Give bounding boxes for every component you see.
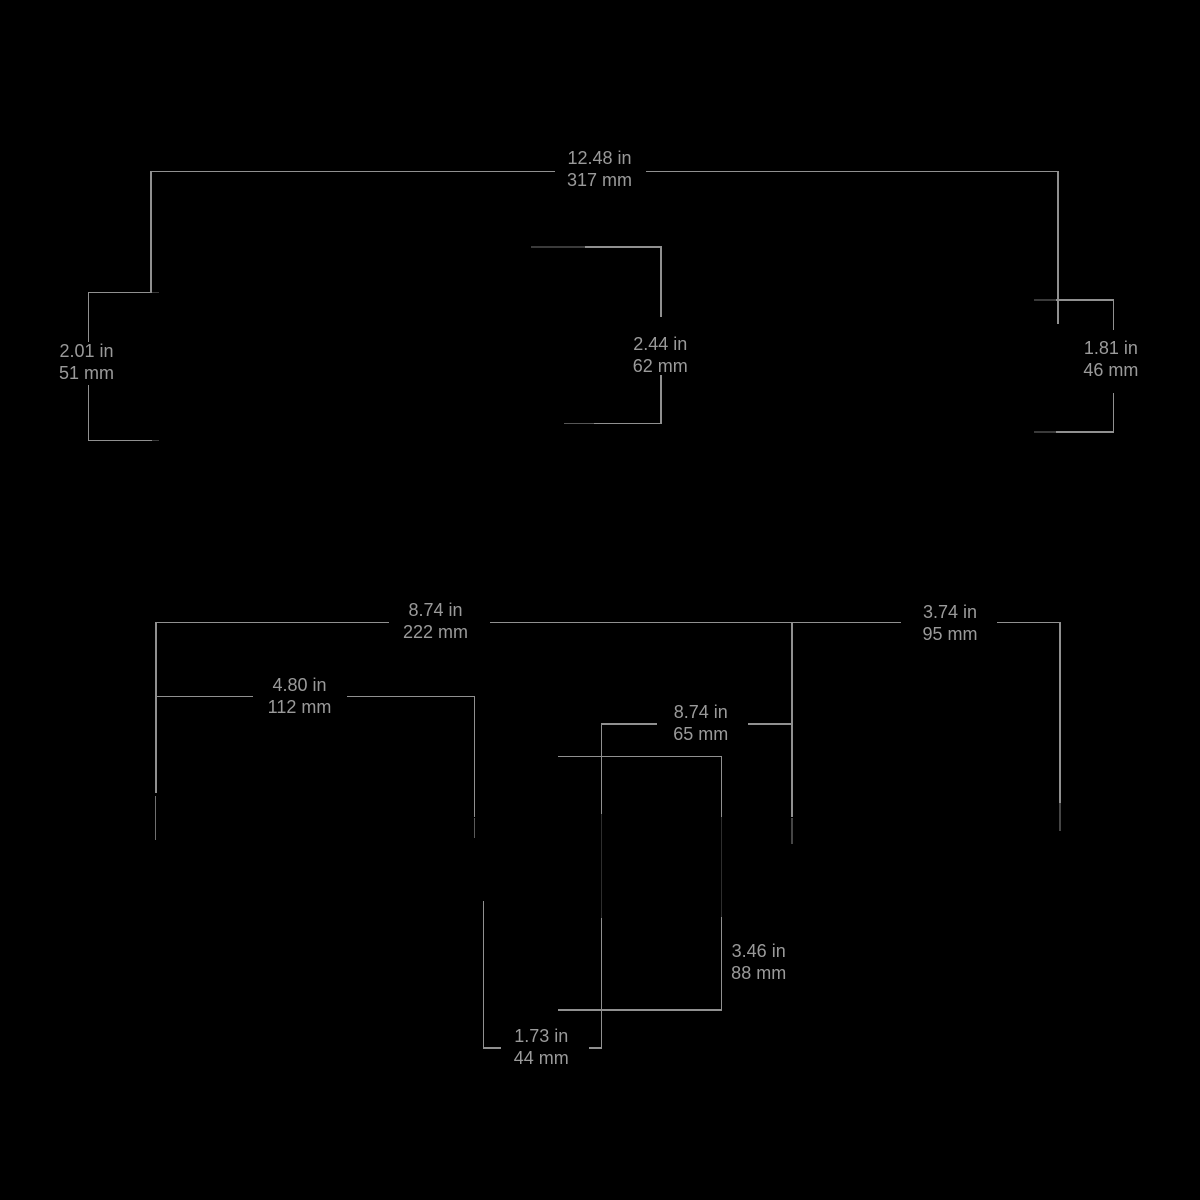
dim 1.81in bracket vertical upper segment — [1113, 299, 1115, 330]
label 12.48 in / 317 mm — [567, 147, 632, 191]
subwoofer rectangle right edge dark middle — [721, 817, 723, 917]
dim 8.74in+3.74in shared horizontal segment 2 — [490, 622, 901, 624]
mid vertical x=791.7 bright part — [791, 622, 793, 818]
dim 2.44in bracket bottom tick mid-dark part — [564, 423, 594, 425]
mid vertical x=791.7 dark part — [791, 818, 793, 845]
label 8.74 in / 222 mm — [403, 599, 468, 643]
dim 12.48in/317mm horizontal line right segment — [646, 171, 1059, 173]
dim 2.01in bracket top tick — [88, 292, 152, 294]
dim 3.74in horizontal segment 3 — [997, 622, 1060, 624]
dim 2.01in bracket bottom tick — [88, 440, 152, 442]
dim 8.74in/222mm left vertical bright part — [155, 622, 157, 793]
dim 4.80in right vertical dim lower part — [474, 818, 475, 839]
dim 2.01in bracket top tick dark part — [152, 292, 159, 294]
label 2.01 in / 51 mm — [59, 340, 114, 384]
dim 2.44in bracket top tick — [585, 246, 661, 248]
dim 1.73in left vertical — [483, 901, 485, 1049]
dim 2.01in bracket vertical lower segment — [88, 385, 90, 442]
dim 2.44in bracket bottom tick — [594, 423, 661, 425]
dim 1.81in bracket bottom tick dark part — [1034, 431, 1056, 433]
dim 8.74in/65mm horizontal segment 1 — [601, 723, 657, 725]
dim 1.81in bracket vertical lower segment — [1113, 393, 1115, 433]
dim 1.81in bracket top tick dark part — [1034, 299, 1056, 301]
label 2.44 in / 62 mm — [633, 333, 688, 377]
dim 12.48in right extension vertical — [1057, 171, 1059, 324]
subwoofer rectangle top edge — [558, 756, 722, 758]
dim 2.01in bracket bottom tick dark part — [152, 440, 159, 442]
dim 4.80in/112mm horizontal segment 1 — [156, 696, 253, 698]
dim 2.44in bracket vertical upper segment — [660, 246, 662, 317]
dim 1.81in bracket top tick — [1056, 299, 1114, 301]
dim 2.01in bracket vertical upper segment — [88, 292, 90, 342]
subwoofer rectangle right edge bright upper — [721, 756, 723, 817]
dim 12.48in/317mm horizontal line left segment — [150, 171, 555, 173]
dim 1.73in left foot tick — [483, 1047, 501, 1049]
dim 8.74in/222mm left vertical dim lower part — [155, 796, 156, 841]
left vertical x=601.5 bright upper — [601, 723, 603, 814]
dim 8.74in/65mm horizontal segment 2 — [748, 723, 793, 725]
left vertical x=601.5 dark middle — [601, 814, 603, 918]
label 4.80 in / 112 mm — [268, 674, 332, 718]
label 1.81 in / 46 mm — [1083, 337, 1138, 381]
left vertical x=601.5 bright lower — [601, 918, 603, 1049]
label 3.74 in / 95 mm — [922, 601, 977, 645]
dim 4.80in right vertical bright part — [474, 696, 476, 818]
subwoofer rectangle right edge bright lower — [721, 917, 723, 1011]
dim 3.74in right vertical bright part — [1059, 622, 1061, 803]
dim 1.81in bracket bottom tick — [1056, 431, 1114, 433]
dim 8.74in/222mm horizontal segment 1 — [155, 622, 389, 624]
dim 2.44in bracket vertical lower segment — [660, 375, 662, 424]
dim 2.44in bracket top tick dark part — [531, 246, 585, 248]
subwoofer rectangle bottom edge — [558, 1009, 722, 1011]
label 1.73 in / 44 mm — [514, 1025, 569, 1069]
dim 3.74in right vertical dark part — [1059, 803, 1061, 831]
dim 12.48in left extension vertical — [150, 171, 152, 294]
label 8.74 in / 65 mm — [673, 701, 728, 745]
label 3.46 in / 88 mm — [731, 940, 786, 984]
dim 1.73in right foot tick — [589, 1047, 602, 1049]
dim 4.80in/112mm horizontal segment 2 — [347, 696, 475, 698]
